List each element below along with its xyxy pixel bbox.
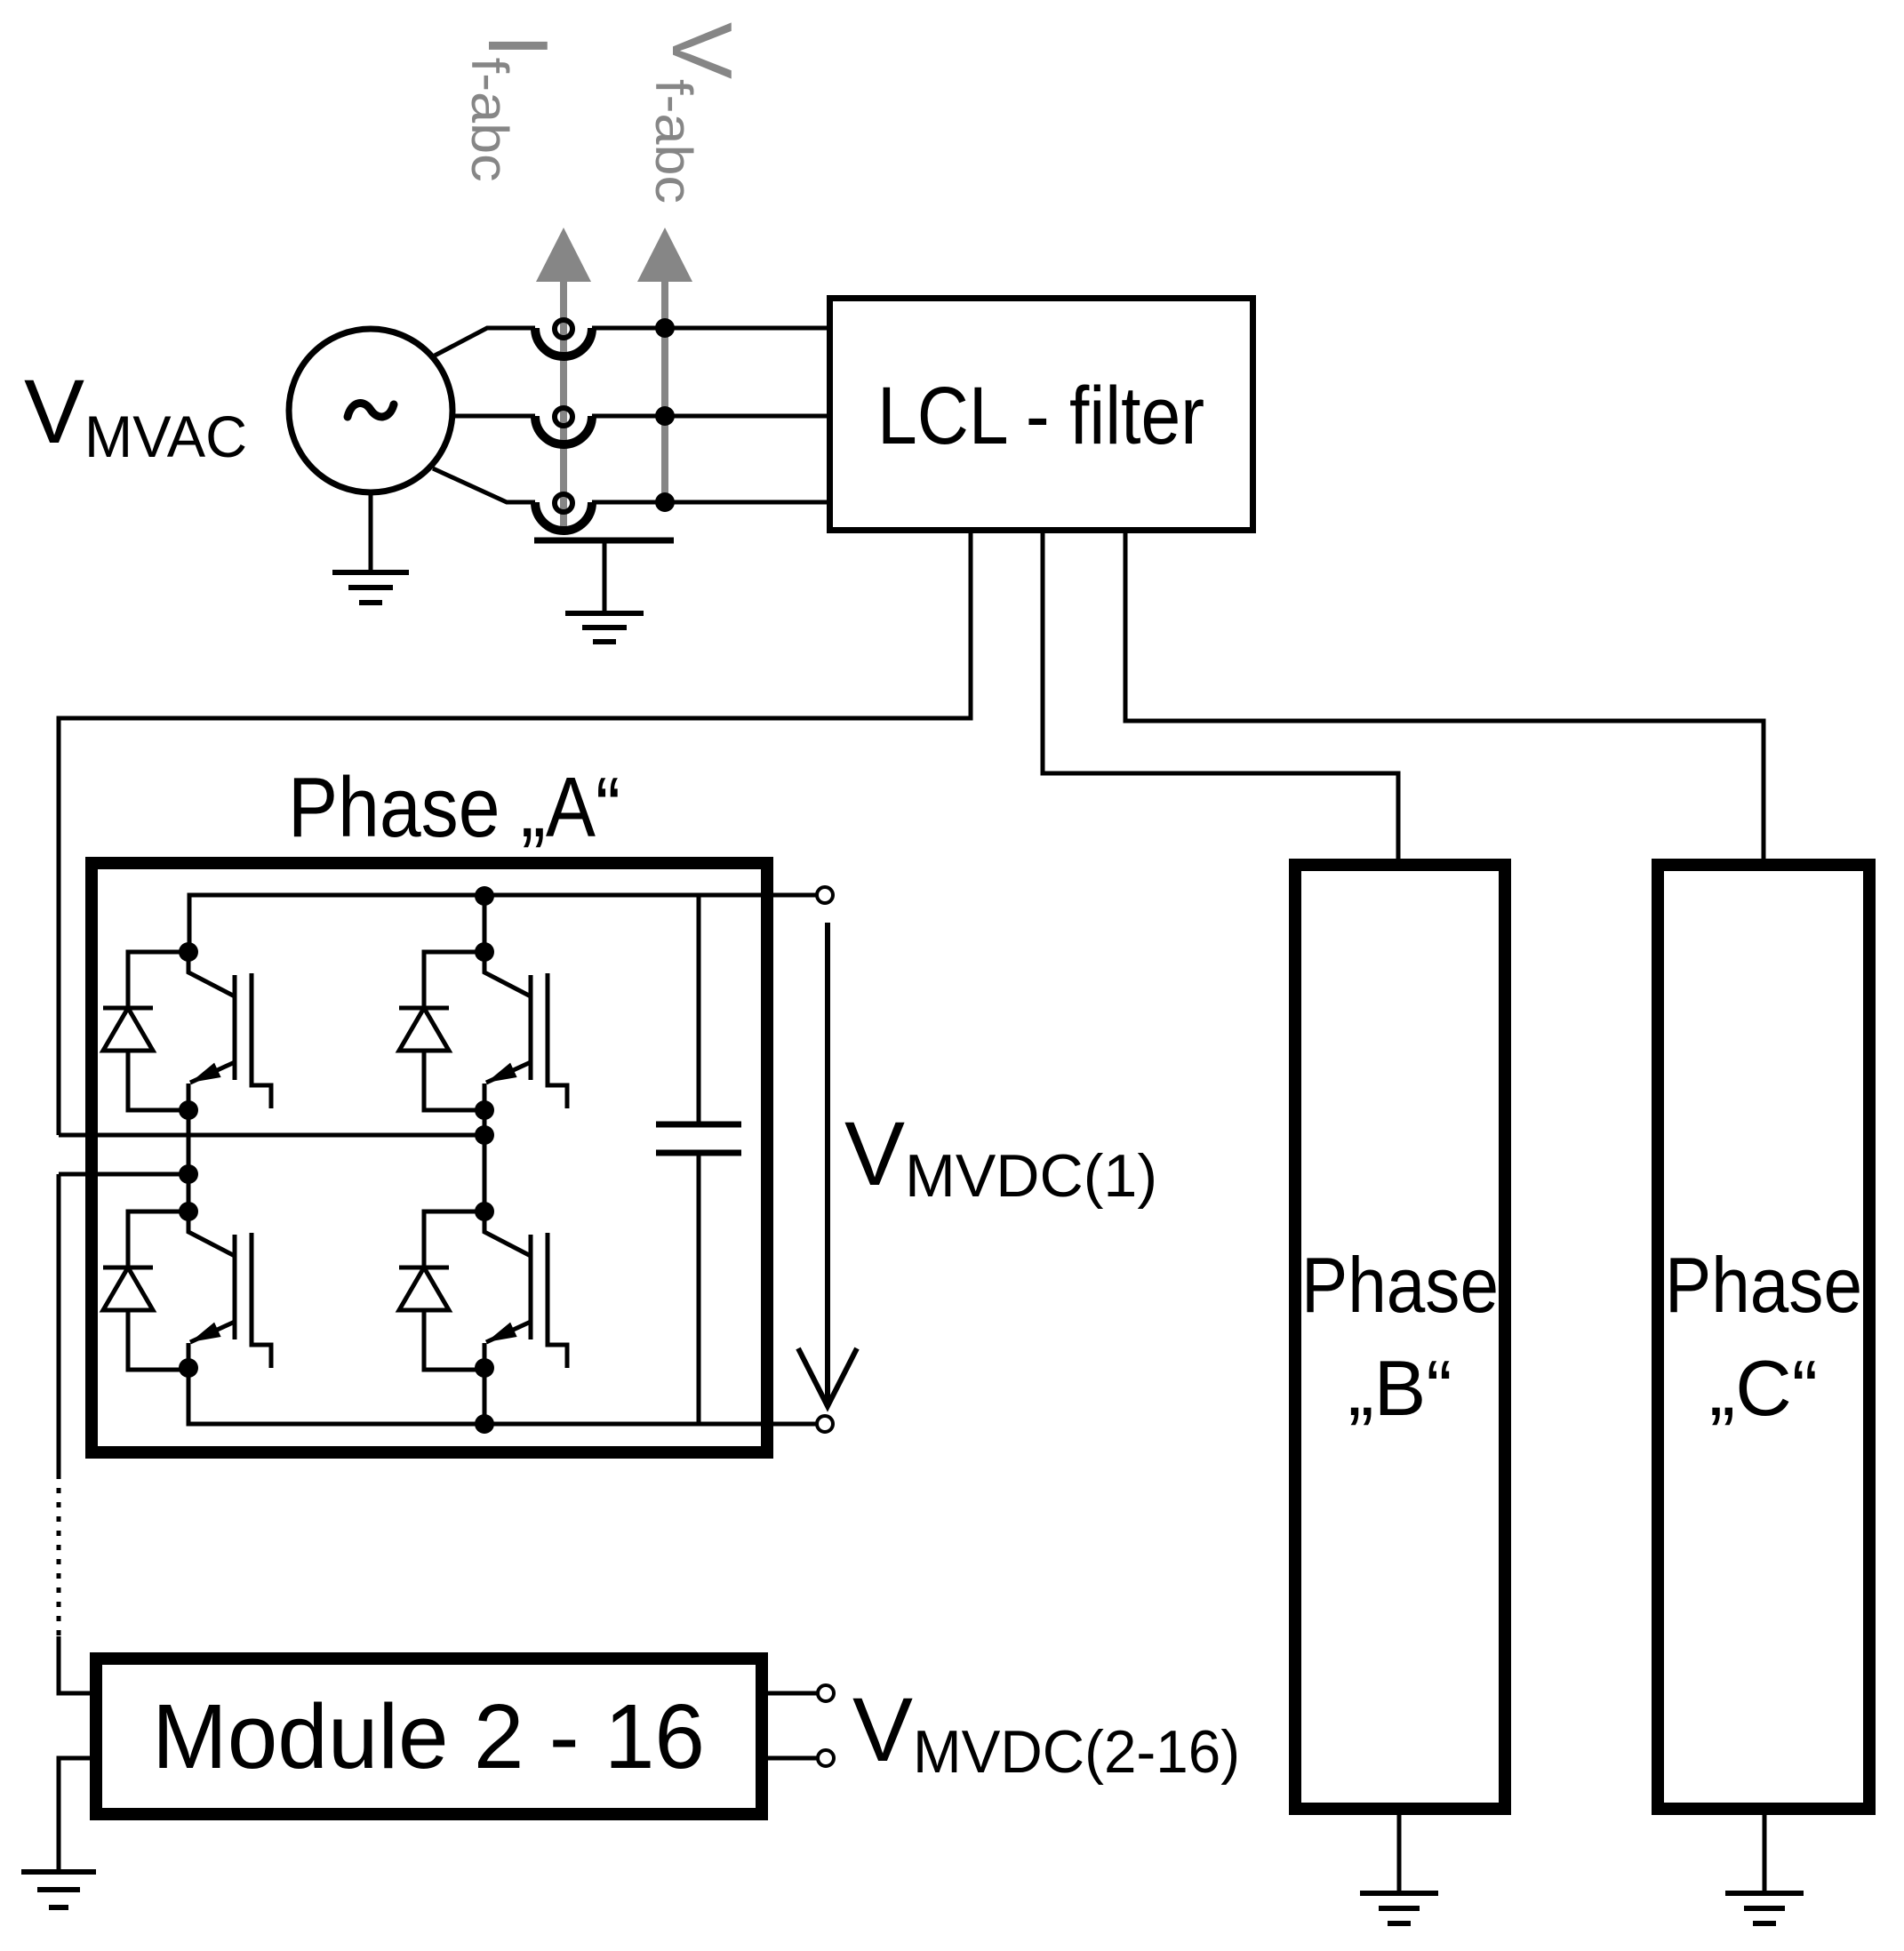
terminal DC+	[817, 887, 833, 903]
phase B box	[1295, 865, 1505, 1809]
node Q3 collector	[179, 1202, 198, 1221]
wire right leg mid	[483, 1110, 487, 1211]
ground CT	[565, 613, 644, 642]
terminal DC-	[817, 1416, 833, 1432]
wire net B (LCL to phase B)	[1043, 533, 1398, 859]
wire net C (LCL to phase C)	[1125, 533, 1764, 859]
svg-text:Phase: Phase	[1301, 1241, 1499, 1329]
node DC+ junction	[475, 886, 494, 906]
wire right leg bottom stub	[483, 1368, 487, 1424]
wire DC+ rail	[189, 895, 818, 952]
diode D1	[103, 952, 188, 1110]
terminal module +	[818, 1685, 834, 1701]
diode D4	[399, 1211, 484, 1370]
node c-V tap	[655, 492, 675, 512]
node DC- junction	[475, 1414, 494, 1434]
wire chain to module	[59, 1636, 96, 1693]
node b-V tap	[655, 406, 675, 426]
node AC mid junction	[475, 1125, 494, 1145]
measurement arrow V_f-abc	[637, 228, 692, 502]
current sensor CT-a	[535, 320, 592, 356]
wire chain down (solid)	[57, 1174, 61, 1474]
node Q1 collector	[179, 942, 198, 962]
svg-text:„C“: „C“	[1709, 1344, 1818, 1432]
module 2-16 box	[96, 1659, 762, 1814]
node Q1 emitter	[179, 1100, 198, 1120]
ground chain	[21, 1872, 96, 1907]
node Q4 emitter	[475, 1358, 494, 1378]
node Q2 collector	[475, 942, 494, 962]
wire phase C to ground	[1763, 1815, 1767, 1893]
node Q3 emitter	[179, 1358, 198, 1378]
measurement arrow I_f-abc	[536, 228, 591, 532]
ground source	[332, 572, 409, 603]
svg-text:LCL - filter: LCL - filter	[877, 371, 1204, 461]
svg-text:Module 2 - 16: Module 2 - 16	[152, 1685, 705, 1787]
node Q2 emitter	[475, 1100, 494, 1120]
wire chain tap	[59, 1172, 188, 1177]
node chain tap	[179, 1164, 198, 1184]
ground phase C	[1725, 1893, 1804, 1923]
svg-text:Phase: Phase	[1665, 1241, 1862, 1329]
node a-V tap	[655, 318, 675, 338]
wire AC mid rail	[59, 1133, 484, 1138]
CT common bar	[534, 538, 674, 544]
wire module terminal +	[762, 1691, 818, 1696]
IGBT Q4	[484, 1211, 567, 1370]
wire module terminal -	[762, 1756, 818, 1761]
phase C box	[1658, 865, 1869, 1809]
diode D2	[399, 952, 484, 1110]
wire chain down (dotted)	[57, 1474, 61, 1636]
terminal module -	[818, 1750, 834, 1766]
wire net A (LCL to phase A)	[59, 533, 971, 1135]
wire phase a (top)	[435, 328, 535, 356]
ground phase B	[1360, 1893, 1438, 1923]
svg-text:„B“: „B“	[1348, 1344, 1452, 1432]
diode D3	[103, 1211, 188, 1370]
current sensor CT-c	[535, 494, 592, 531]
wire left leg mid	[187, 1110, 191, 1211]
wire phase c (bottom)	[433, 468, 535, 502]
current sensor CT-b	[535, 408, 592, 444]
wire phase b (middle)	[452, 414, 535, 419]
arrow V_MVDC(1)	[798, 923, 857, 1406]
AC sine symbol	[348, 404, 394, 417]
LCL filter box	[830, 299, 1253, 531]
wire CT common to ground	[603, 540, 607, 613]
wire module to ground	[59, 1758, 96, 1872]
wire phase B to ground	[1397, 1815, 1402, 1893]
svg-text:Phase „A“: Phase „A“	[288, 760, 620, 855]
IGBT Q3	[188, 1211, 271, 1370]
AC source V_MVAC	[289, 329, 452, 492]
wire source to ground	[369, 492, 373, 572]
IGBT Q2	[484, 952, 567, 1110]
IGBT Q1	[188, 952, 271, 1110]
wire DC- rail	[188, 1368, 818, 1424]
phase A box	[92, 863, 767, 1452]
wire right leg top stub	[483, 895, 487, 952]
node Q4 collector	[475, 1202, 494, 1221]
capacitor C1	[656, 895, 741, 1424]
